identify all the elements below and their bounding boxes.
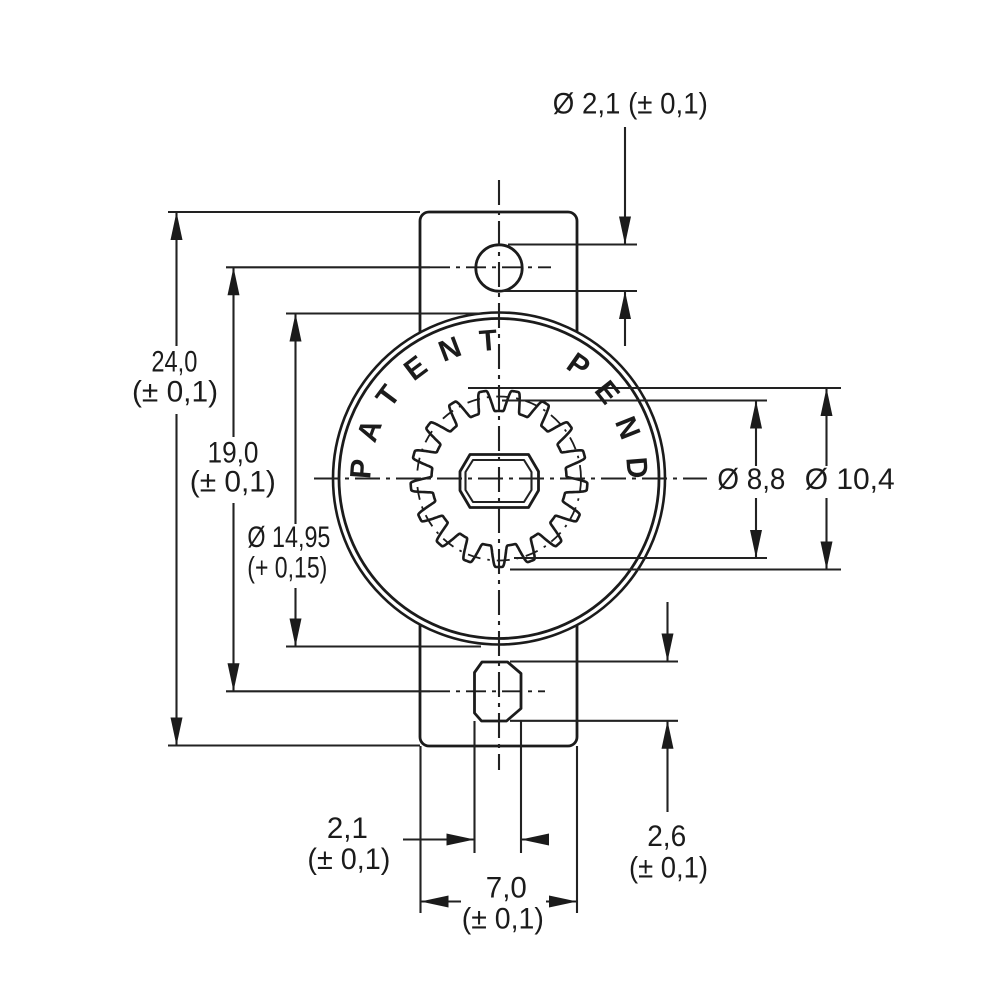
svg-text:(± 0,1): (± 0,1) bbox=[132, 375, 218, 408]
svg-text:Ø 14,95: Ø 14,95 bbox=[247, 521, 330, 554]
dim 19,0 dimension line bbox=[232, 267, 234, 691]
dim 2,1 bottom extension lines bbox=[475, 721, 522, 853]
rotor gear teeth bbox=[411, 391, 588, 567]
svg-text:P: P bbox=[344, 458, 378, 480]
svg-text:24,0: 24,0 bbox=[151, 345, 197, 378]
main vertical centerline bbox=[498, 180, 500, 770]
body outer circle bbox=[333, 313, 665, 645]
dim 14,95 extension lines bbox=[286, 314, 481, 647]
dim 10,4 extension lines bbox=[468, 388, 841, 570]
svg-text:7,0: 7,0 bbox=[486, 872, 527, 905]
dim 8,8 dimension line bbox=[755, 401, 757, 559]
svg-text:(± 0,1): (± 0,1) bbox=[629, 852, 708, 885]
top hole horizontal centerline bbox=[430, 266, 551, 268]
dim 2,6 dimension line bbox=[666, 602, 668, 812]
text halos bbox=[134, 346, 218, 414]
center shaft hole outer outline bbox=[460, 455, 539, 508]
main horizontal centerline bbox=[314, 477, 707, 479]
svg-text:(+ 0,15): (+ 0,15) bbox=[247, 551, 327, 584]
dim 2,1 bottom dimension line bbox=[403, 838, 546, 840]
svg-text:Ø 8,8: Ø 8,8 bbox=[717, 463, 785, 496]
svg-text:(± 0,1): (± 0,1) bbox=[190, 466, 276, 499]
dim 8,8 extension lines bbox=[502, 401, 767, 559]
dim 24,0 extension lines bbox=[168, 212, 420, 746]
svg-text:2,6: 2,6 bbox=[647, 820, 686, 853]
svg-text:D: D bbox=[619, 456, 654, 480]
svg-text:T: T bbox=[478, 324, 499, 358]
svg-text:Ø 10,4: Ø 10,4 bbox=[805, 463, 895, 496]
svg-text:2,1: 2,1 bbox=[327, 812, 368, 845]
svg-text:(± 0,1): (± 0,1) bbox=[462, 903, 544, 936]
dim 2,1 top extension lines bbox=[503, 245, 637, 292]
dim 7,0 extension lines bbox=[421, 746, 578, 913]
dim 24,0 dimension line bbox=[175, 212, 177, 746]
dim 2,1 top dimension line bbox=[624, 127, 626, 346]
gear pitch circle (dash-dot) bbox=[417, 397, 581, 561]
center shaft hole inner outline bbox=[466, 460, 532, 502]
dim 19,0 extension lines bbox=[226, 267, 430, 691]
dim 14,95 dimension line bbox=[294, 314, 296, 647]
svg-text:Ø 2,1 (± 0,1): Ø 2,1 (± 0,1) bbox=[553, 87, 708, 120]
top mounting hole bbox=[476, 245, 522, 291]
body inner circle bbox=[339, 319, 659, 639]
bottom hole horizontal centerline bbox=[430, 690, 545, 692]
bottom hex hole bbox=[475, 662, 522, 721]
dim 2,6 extension lines bbox=[510, 662, 678, 721]
svg-text:(± 0,1): (± 0,1) bbox=[307, 843, 390, 876]
dim 10,4 dimension line bbox=[825, 388, 827, 570]
dim 7,0 dimension line bbox=[421, 900, 578, 902]
mounting bracket flange outline bbox=[420, 212, 577, 746]
